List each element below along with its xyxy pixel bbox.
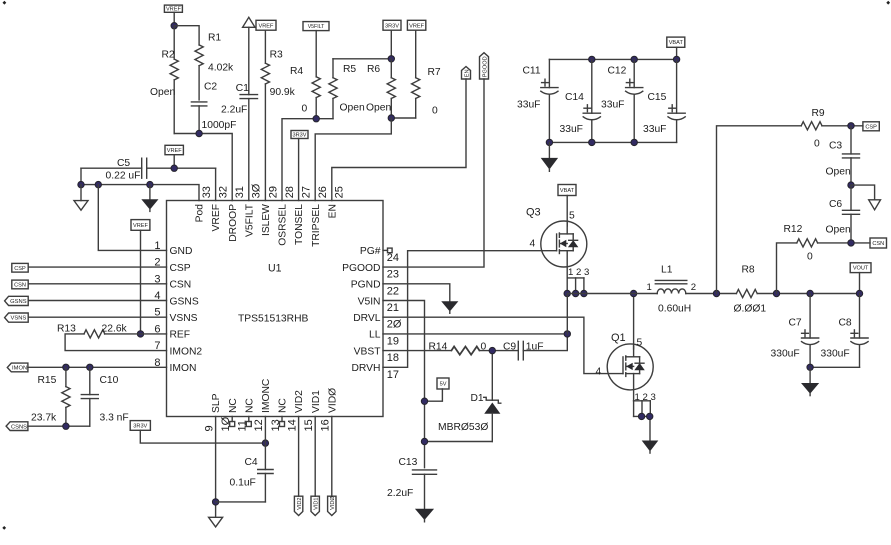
svg-text:CSP: CSP [865, 124, 877, 130]
junction Q3 source stub 3 [581, 290, 587, 296]
wire cap bank top rail [549, 58, 676, 60]
svg-text:5: 5 [637, 338, 643, 349]
svg-text:R1: R1 [208, 33, 221, 44]
svg-text:3Ø: 3Ø [251, 183, 263, 198]
junction Q1 source stub 3 [647, 413, 653, 419]
wire R13 left to U1 pin 7 IMON2 [65, 334, 166, 351]
svg-text:PG#: PG# [360, 246, 381, 257]
svg-text:V5IN: V5IN [358, 296, 381, 307]
svg-text:VBST: VBST [354, 346, 382, 357]
svg-text:GSNS: GSNS [170, 296, 199, 307]
PG# stub pin 24 [383, 248, 392, 253]
svg-text:Q3: Q3 [526, 207, 541, 219]
svg-text:CSN: CSN [872, 241, 884, 247]
svg-text:DROOP: DROOP [228, 204, 239, 242]
capacitor C2 [191, 82, 236, 134]
diode D1 MBR0530 [438, 351, 501, 441]
wire CSNS to R15/C10 bottoms [28, 425, 90, 427]
junction IMONC wire [262, 440, 268, 446]
svg-text:18: 18 [387, 352, 399, 364]
svg-text:VID1: VID1 [311, 390, 322, 413]
junction VREF at REF row [137, 331, 143, 337]
svg-text:1 2 3: 1 2 3 [635, 392, 656, 403]
svg-text:31: 31 [234, 186, 246, 198]
net label 5V [425, 378, 450, 401]
wire Q1 drain to switch node [633, 294, 635, 349]
svg-text:22.6k: 22.6k [102, 324, 128, 335]
svg-text:R4: R4 [290, 66, 303, 77]
U1 top pin numbers 33-25 [201, 183, 346, 198]
svg-text:IMONC: IMONC [261, 378, 272, 413]
wire R6 bottom to U1 pin 26 TRIPSEL [315, 118, 391, 201]
U1 left pin names [170, 246, 203, 374]
svg-text:LL: LL [369, 330, 381, 341]
svg-text:12: 12 [253, 419, 265, 431]
wire R5 top to R6 top [333, 58, 391, 60]
svg-text:4.02k: 4.02k [208, 63, 234, 74]
ground (signal) right of C3 [869, 200, 881, 210]
wire CSN to U1 pin 3 [28, 283, 166, 285]
wire R14 to C9 [480, 350, 519, 352]
junction R15 top [63, 364, 69, 370]
svg-text:MBRØ53Ø: MBRØ53Ø [438, 422, 488, 433]
junction bottom rail C11 [546, 139, 552, 145]
capacitor C12 [601, 59, 643, 142]
resistor R12 [784, 224, 818, 263]
net label VOUT [850, 263, 871, 294]
wire VREF node to R1 top [174, 26, 199, 45]
svg-text:23.7k: 23.7k [31, 413, 57, 424]
junction D1 anode tap [421, 438, 427, 444]
svg-text:VSNS: VSNS [11, 316, 27, 322]
resistor R3 [261, 50, 295, 201]
svg-text:26: 26 [317, 186, 329, 198]
svg-text:19: 19 [387, 335, 399, 347]
wire R2/C2 bottom to U1 pin 31 DROOP [174, 134, 232, 201]
junction SLP/C4 ground node [212, 499, 218, 505]
svg-text:C6: C6 [829, 199, 842, 210]
svg-text:2Ø: 2Ø [387, 319, 402, 331]
net flag CSP (right) [863, 122, 879, 131]
svg-text:32: 32 [218, 186, 230, 198]
wire V5IN pin 21 down to C13 [383, 301, 425, 468]
svg-text:21: 21 [387, 302, 399, 314]
wire rail to U1 pin 1 GND [98, 185, 166, 251]
svg-text:R5: R5 [343, 64, 356, 75]
wire VSNS to U1 pin 5 [28, 316, 166, 318]
junction top rail C14 [589, 56, 595, 62]
svg-text:Open: Open [826, 225, 851, 236]
net label VREF above R7 [407, 20, 425, 77]
junction 5V tap on V5IN [421, 398, 427, 404]
NC stub pin 10 [230, 417, 235, 427]
svg-text:IMON2: IMON2 [170, 346, 203, 357]
resistor R7 [412, 67, 441, 118]
svg-text:Ø.ØØ1: Ø.ØØ1 [734, 304, 767, 315]
net label V5FILT above R4 [303, 22, 329, 77]
svg-text:0.1uF: 0.1uF [230, 478, 256, 489]
svg-text:33: 33 [201, 186, 213, 198]
wire GSNS to U1 pin 4 [28, 300, 166, 302]
svg-text:EN: EN [327, 204, 338, 218]
net label VBAT above cap bank [667, 37, 685, 59]
IC U1 TPS51513RHB body [167, 201, 384, 417]
svg-text:VID2: VID2 [294, 390, 305, 413]
junction ground rail right [147, 181, 153, 187]
junction Q3 source stub 2 [572, 290, 578, 296]
wire R9 to CSP flag [822, 125, 863, 127]
capacitor C9 [503, 341, 544, 360]
svg-text:PGOOD: PGOOD [482, 56, 488, 77]
svg-text:VREF: VREF [259, 23, 275, 29]
svg-text:D1: D1 [471, 393, 484, 404]
svg-text:C13: C13 [399, 457, 418, 468]
junction R15 bottom [63, 423, 69, 429]
svg-text:330uF: 330uF [771, 349, 800, 360]
junction R8/R12 node [773, 290, 779, 296]
svg-text:GND: GND [170, 246, 193, 257]
wire R8 to output node [757, 293, 859, 295]
resistor R14 [429, 341, 487, 354]
svg-text:CSNS: CSNS [11, 424, 27, 430]
svg-text:L1: L1 [661, 265, 673, 276]
svg-text:OSRSEL: OSRSEL [278, 204, 289, 246]
off-page arrow above C1 [243, 17, 255, 27]
svg-text:33uF: 33uF [643, 124, 666, 135]
wire cap bank bottom rail [549, 141, 676, 143]
svg-text:VREF: VREF [133, 223, 149, 229]
junction LL at switch node column [564, 331, 570, 337]
svg-text:3R3V: 3R3V [293, 133, 307, 139]
svg-text:NC: NC [228, 398, 239, 413]
svg-text:Pod: Pod [195, 204, 206, 223]
svg-text:2: 2 [691, 282, 696, 293]
svg-text:R9: R9 [812, 108, 825, 119]
registration mark top-left [3, 1, 7, 5]
power ground arrow at PGND [442, 302, 457, 314]
net label 3R3V above pin 27 TONSEL [291, 131, 308, 201]
capacitor C8 [821, 294, 869, 368]
capacitor C6 [826, 185, 860, 243]
capacitor C1 [221, 27, 258, 200]
wire VBST pin 18 to R14 [383, 350, 451, 352]
wire 3R3V to U1 pin 12 IMONC [140, 430, 265, 443]
svg-text:VIDØ: VIDØ [327, 388, 338, 413]
net label 3R3V bottom left [130, 421, 150, 431]
svg-text:C8: C8 [839, 318, 852, 329]
svg-text:C14: C14 [565, 92, 584, 103]
wire C7/C8 bottoms [810, 366, 859, 368]
svg-text:3.3 nF: 3.3 nF [100, 413, 129, 424]
U1 left pin numbers 1-8 [154, 240, 160, 369]
svg-text:17: 17 [387, 369, 399, 381]
svg-text:VBAT: VBAT [560, 188, 575, 194]
svg-text:DRVH: DRVH [352, 363, 381, 374]
svg-text:VREF: VREF [167, 148, 183, 154]
resistor R13 [57, 324, 128, 339]
wire PGND pin 22 to ground [383, 284, 450, 302]
wire C5 right to U1 pin 32 VREF [215, 168, 217, 200]
power ground arrow below C7 [802, 367, 818, 395]
junction VOUT node [856, 290, 862, 296]
svg-text:C11: C11 [523, 66, 541, 77]
svg-text:U1: U1 [268, 263, 282, 275]
net flag VID0 [328, 417, 337, 516]
svg-text:C2: C2 [204, 82, 217, 93]
U1 bottom pin names [211, 378, 338, 413]
net label 3R3V above R6 [383, 20, 401, 59]
wire U1 pin 12 down through C4 [264, 417, 266, 470]
svg-text:C10: C10 [100, 375, 119, 386]
svg-text:SLP: SLP [211, 393, 222, 413]
junction C7 top [807, 290, 813, 296]
svg-text:2.2uF: 2.2uF [387, 488, 413, 499]
svg-text:0: 0 [302, 104, 308, 115]
power ground arrow below Q1 [643, 441, 658, 453]
svg-text:5V: 5V [440, 382, 447, 388]
transistor Q1 [607, 344, 653, 417]
svg-text:VOUT: VOUT [853, 266, 869, 272]
capacitor C5 [81, 158, 216, 182]
junction Q1 drain at node row [630, 290, 636, 296]
capacitor C15 [643, 59, 685, 142]
svg-text:REF: REF [170, 330, 191, 341]
junction Q3 source stub 1 [564, 290, 570, 296]
svg-text:Open: Open [826, 167, 851, 178]
svg-text:27: 27 [301, 186, 313, 198]
svg-text:VSNS: VSNS [170, 313, 198, 324]
U1 top pin names [195, 203, 339, 247]
wire DRVL pin 20 to Q1 gate [383, 317, 623, 373]
junction C3/C6 midpoint [848, 182, 854, 188]
capacitor C14 [560, 59, 601, 142]
wire EN flag to U1 pin 25 EN [332, 79, 466, 201]
resistor R15 [31, 367, 70, 426]
svg-text:0: 0 [814, 139, 820, 150]
svg-text:CSN: CSN [14, 282, 26, 288]
node VREF junction above R2 [171, 23, 177, 29]
svg-text:0: 0 [807, 252, 813, 263]
svg-text:C7: C7 [789, 318, 802, 329]
net flag CSN (right) [870, 238, 887, 248]
svg-text:25: 25 [334, 186, 346, 198]
power ground arrow below C13 [416, 509, 433, 522]
junction C7 bottom [807, 364, 813, 370]
junction R6 top [388, 56, 394, 62]
power ground arrow below rail [142, 185, 157, 212]
NC stub pin 11 [246, 417, 251, 427]
junction Q1 source stub 2 [638, 413, 644, 419]
U1 right pin names [342, 246, 381, 374]
svg-text:4: 4 [530, 239, 536, 250]
Q1 labels [596, 332, 656, 403]
svg-text:C15: C15 [648, 92, 667, 103]
svg-text:ISLEW: ISLEW [261, 204, 272, 236]
svg-text:33uF: 33uF [560, 124, 583, 135]
svg-text:14: 14 [286, 419, 298, 431]
svg-text:V5FILT: V5FILT [244, 203, 255, 237]
junction at C2 bottom [196, 130, 202, 136]
wire R12 to CSN flag [818, 242, 870, 244]
svg-text:VID1: VID1 [314, 497, 320, 509]
ground (signal) below pin 9 [209, 517, 223, 527]
junction ground rail left [78, 181, 84, 187]
svg-text:VID2: VID2 [297, 497, 303, 509]
net label VBAT above Q3 [558, 185, 576, 227]
svg-text:R12: R12 [784, 224, 803, 235]
svg-text:GSNS: GSNS [10, 299, 27, 305]
net flag CSN (left) [12, 280, 28, 289]
svg-text:R8: R8 [742, 265, 755, 276]
wire C9 to switch node column [523, 334, 567, 351]
net label VREF above R3 [256, 20, 276, 63]
net flag CSNS [6, 422, 28, 431]
svg-text:R3: R3 [270, 50, 283, 61]
net flag VSNS [5, 313, 29, 322]
svg-text:0.22 uF: 0.22 uF [106, 171, 141, 182]
svg-text:29: 29 [267, 186, 279, 198]
transistor Q3 [541, 221, 587, 294]
junction R6 bottom [388, 115, 394, 121]
wire switch node row [567, 293, 657, 295]
svg-text:5: 5 [569, 211, 575, 222]
wire C4 bottom to SLP ground node [216, 501, 266, 503]
junction R9/C3 node [848, 123, 854, 129]
wire Q1 source to ground [634, 416, 650, 441]
wire LL pin 19 to switch node [383, 333, 567, 335]
svg-text:CSP: CSP [14, 266, 26, 272]
svg-text:C4: C4 [245, 457, 258, 468]
U1 bottom pin numbers 9-16 [203, 416, 331, 431]
resistor R2 [150, 26, 178, 134]
svg-text:16: 16 [320, 419, 332, 431]
net flag PGOOD [480, 53, 489, 79]
resistor R9 [801, 108, 825, 150]
svg-text:0: 0 [432, 106, 438, 117]
capacitor C10 [81, 367, 128, 426]
svg-text:V5FILT: V5FILT [308, 24, 325, 30]
svg-text:VREF: VREF [211, 204, 222, 231]
junction top rail C12 [631, 56, 637, 62]
net flag VID2 [294, 417, 303, 516]
svg-text:3R3V: 3R3V [133, 423, 147, 429]
NC stub pin 13 [280, 417, 285, 427]
svg-text:DRVL: DRVL [353, 313, 381, 324]
wire C5 left down to ground rail [80, 168, 82, 184]
junction VREF at C5 wire [171, 165, 177, 171]
wire IMON row to U1 pin 8 [28, 366, 167, 368]
wire CSP tap up to R9 [717, 126, 802, 294]
svg-text:Open: Open [340, 103, 365, 114]
power ground arrow below cap bank [542, 142, 557, 171]
svg-text:C9: C9 [503, 341, 516, 352]
svg-text:C12: C12 [608, 66, 627, 77]
junction CSP sense tap [713, 290, 719, 296]
svg-text:R14: R14 [429, 341, 448, 352]
capacitor C11 [517, 59, 558, 142]
net flag CSP (left) [12, 263, 28, 272]
svg-text:TONSEL: TONSEL [294, 204, 305, 245]
svg-text:33uF: 33uF [601, 100, 624, 111]
svg-text:EN: EN [464, 69, 470, 77]
inductor L1 [647, 265, 697, 315]
wire R4/R5 bottoms to U1 pin 28 OSRSEL [282, 119, 333, 201]
svg-text:R15: R15 [38, 375, 57, 386]
svg-text:NC: NC [278, 398, 289, 413]
svg-text:Open: Open [366, 103, 391, 114]
svg-text:Open: Open [150, 87, 175, 98]
capacitor C4 [230, 457, 274, 502]
capacitor C7 [771, 294, 819, 368]
net label VREF left of U1 [131, 220, 150, 334]
ground (signal) below rail left [74, 185, 88, 211]
wire CSP to U1 pin 2 [28, 266, 166, 268]
svg-text:VBAT: VBAT [669, 40, 684, 46]
svg-text:TPS51513RHB: TPS51513RHB [238, 314, 309, 325]
svg-text:VIDØ: VIDØ [330, 496, 336, 510]
capacitor C3 [826, 126, 860, 185]
svg-text:VREF: VREF [409, 23, 425, 29]
svg-text:C5: C5 [117, 158, 130, 169]
svg-text:Q1: Q1 [611, 332, 626, 344]
junction top rail VBAT [673, 56, 679, 62]
svg-text:33uF: 33uF [517, 100, 540, 111]
net flag IMON [7, 363, 28, 372]
junction C10 top [87, 364, 93, 370]
svg-text:IMON: IMON [12, 366, 27, 372]
wire DRVH pin 17 to Q3 gate [383, 251, 557, 368]
wire R12 row [777, 243, 797, 294]
svg-text:330uF: 330uF [821, 349, 850, 360]
Q3 labels [526, 207, 589, 278]
resistor R4 [290, 66, 320, 119]
svg-text:23: 23 [387, 269, 399, 281]
svg-text:R6: R6 [367, 64, 380, 75]
net flag GSNS [5, 296, 29, 305]
svg-text:TRIPSEL: TRIPSEL [311, 204, 322, 247]
wire U1 pin 9 SLP to ground [215, 417, 217, 518]
resistor R6 [366, 59, 395, 118]
svg-text:R13: R13 [57, 324, 76, 335]
svg-text:1: 1 [647, 282, 652, 293]
net label VREF (top left) [164, 5, 182, 26]
junction bottom rail C14 [589, 139, 595, 145]
net flag EN [462, 67, 471, 80]
wire L1 to R8 [686, 293, 737, 295]
svg-text:24: 24 [387, 252, 399, 264]
resistor R5 [329, 59, 365, 119]
svg-text:2.2uF: 2.2uF [221, 105, 247, 116]
capacitor C13 [387, 457, 437, 509]
svg-text:9: 9 [203, 425, 215, 431]
net label VREF above C5 node [165, 145, 183, 168]
resistor R1 [195, 33, 234, 100]
wire REF row to U1 pin 6 [105, 333, 167, 335]
registration mark top-right [886, 1, 890, 5]
svg-text:90.9k: 90.9k [270, 87, 296, 98]
wire midpoint to ground [851, 185, 875, 200]
U1 right pin numbers 24-17 [387, 252, 402, 381]
wire D1 anode to V5IN column [425, 441, 493, 443]
wire R7 bottom to R6 bottom [391, 117, 415, 119]
svg-text:4: 4 [596, 367, 602, 378]
wire switch node column [566, 294, 568, 334]
svg-text:PGOOD: PGOOD [342, 263, 380, 274]
svg-text:PGND: PGND [351, 280, 381, 291]
junction bootstrap node at D1 cathode [489, 347, 495, 353]
net flag VID1 [311, 417, 320, 516]
svg-text:1000pF: 1000pF [202, 120, 237, 131]
